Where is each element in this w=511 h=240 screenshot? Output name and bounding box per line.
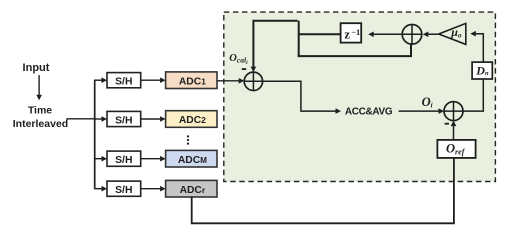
svg-text:Time: Time xyxy=(28,104,52,116)
svg-text:ADC2: ADC2 xyxy=(179,115,206,126)
svg-text:Interleaved: Interleaved xyxy=(13,118,68,130)
svg-text:Input: Input xyxy=(23,62,50,74)
svg-text:ADCM: ADCM xyxy=(178,155,207,166)
svg-text:S/H: S/H xyxy=(115,115,132,126)
svg-text:z: z xyxy=(344,28,350,42)
svg-text:ADCr: ADCr xyxy=(180,185,206,196)
svg-text:ACC&AVG: ACC&AVG xyxy=(345,107,393,118)
svg-text:ADC1: ADC1 xyxy=(179,76,206,87)
svg-text:−1: −1 xyxy=(351,27,360,37)
svg-text:S/H: S/H xyxy=(115,77,132,88)
svg-text:S/H: S/H xyxy=(115,185,132,196)
svg-text:S/H: S/H xyxy=(115,155,132,166)
